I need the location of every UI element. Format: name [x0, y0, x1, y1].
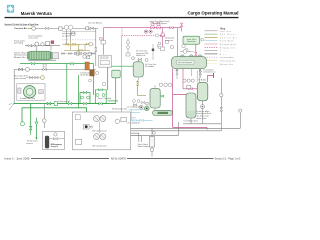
pipe green loop 1	[80, 93, 90, 104]
green discharge valves	[31, 62, 74, 64]
instrument cluster	[126, 41, 130, 56]
svg-text:Section 2.1 - Page 1 of 3: Section 2.1 - Page 1 of 3	[215, 158, 241, 161]
wire vessel leg drops	[177, 69, 201, 79]
cooler top fittings	[133, 100, 145, 104]
svg-text:tank filling: tank filling	[14, 42, 23, 45]
pipe nitrogen drop left	[102, 28, 104, 55]
wire drain drop	[43, 104, 45, 128]
pipe nitrogen dashed branch	[122, 28, 166, 36]
svg-text:Deck Water Seal: Deck Water Seal	[184, 120, 199, 123]
pipe nitrogen drop mid	[176, 28, 178, 57]
svg-text:LT Cooling W.: LT Cooling W.	[127, 122, 141, 124]
legend row electrical signal	[205, 56, 234, 59]
green control box	[112, 70, 120, 78]
cooler inlet valves	[133, 119, 144, 121]
cooler pumps	[133, 102, 148, 109]
legend row nitrogen	[205, 43, 237, 46]
wire instrument riser	[121, 36, 123, 112]
svg-text:Scrubber SW Pump: Scrubber SW Pump	[20, 97, 35, 100]
pipe green scrubber feed	[103, 65, 133, 67]
recirc valves row	[29, 76, 38, 78]
wire buffer tank drain	[202, 101, 204, 124]
legend row fresh water	[205, 40, 235, 43]
pipe green left riser bottom	[30, 104, 32, 127]
wire olive riser 1	[70, 40, 72, 50]
pipe nitrogen drop gen	[162, 28, 164, 47]
wire recirc row	[26, 77, 41, 79]
gauge trio under vessel	[159, 83, 172, 87]
main riser valve	[95, 48, 97, 52]
scrubber tower vessel	[133, 59, 143, 77]
svg-text:N2 Compressor: N2 Compressor	[93, 129, 108, 132]
svg-text:service air system: service air system	[28, 37, 38, 40]
svg-text:Inert Gas Blowers: Inert Gas Blowers	[88, 21, 102, 24]
deck water seal tower	[186, 93, 196, 118]
wire top suction main	[36, 27, 98, 29]
pipe nitrogen tower riser	[173, 69, 207, 130]
svg-text:Nm3/h unit: Nm3/h unit	[136, 54, 146, 57]
pipe nitrogen to deck	[208, 76, 214, 83]
green loop valves	[81, 89, 106, 105]
burner block orange	[85, 62, 89, 70]
tower side valve	[160, 95, 164, 97]
wire scrubber bottom stub	[138, 77, 155, 110]
label box gauges	[201, 39, 204, 42]
scrubber top fittings	[132, 57, 149, 62]
vessel drop valves	[176, 71, 202, 75]
svg-text:Scrubber: Scrubber	[145, 65, 155, 68]
svg-text:mast: mast	[27, 142, 34, 145]
pipe green vent run	[31, 118, 37, 138]
pipe green riser b	[93, 64, 95, 95]
wire control air line	[28, 27, 36, 29]
wire instrument dashed bus	[62, 39, 96, 41]
svg-text:Cargo Operating Manual: Cargo Operating Manual	[188, 11, 239, 16]
pipe nitrogen label box drop	[195, 44, 197, 56]
legend row exhaust	[205, 63, 233, 66]
svg-text:Maersk Ventura: Maersk Ventura	[21, 11, 53, 16]
wire gauge header	[25, 45, 60, 47]
svg-text:burner air: burner air	[165, 39, 173, 42]
wire deck seal feed	[151, 128, 153, 156]
generator gauges	[158, 40, 188, 51]
sea chest inlet	[9, 104, 14, 110]
sea water pump in box	[17, 84, 45, 100]
svg-text:Water Supply: Water Supply	[138, 145, 149, 148]
pipe green cross bottom	[108, 100, 118, 102]
wire blower discharge pair	[62, 30, 96, 32]
chamber gauges	[89, 71, 106, 85]
olive cluster fittings	[66, 43, 89, 51]
compressor room box	[72, 112, 130, 150]
svg-text:Inert Gas: Inert Gas	[220, 30, 231, 33]
svg-text:main suction: main suction	[14, 77, 26, 80]
svg-text:Illustration 2.14a Inert Gas S: Illustration 2.14a Inert Gas System in E…	[5, 23, 39, 26]
bus end gauge	[239, 109, 242, 112]
blower gauge	[71, 32, 75, 36]
wire center vertical main	[95, 28, 97, 66]
pressure box on nitrogen drop	[101, 41, 106, 45]
footer rule	[31, 158, 214, 160]
legend row lubricating oil	[205, 60, 236, 63]
legend row sea water	[205, 33, 237, 36]
blower unit no2	[86, 27, 94, 30]
wire tower drain	[125, 118, 191, 136]
svg-text:Oil: Oil	[220, 51, 229, 53]
wire pilot header	[180, 51, 194, 53]
svg-text:Control Air: Control Air	[220, 36, 237, 39]
blower suction box	[59, 27, 63, 30]
wire olive riser 3	[84, 44, 86, 50]
wire overboard header	[183, 123, 221, 125]
nitrogen dashed branch taps	[144, 30, 158, 37]
pipe green genset discharge	[20, 63, 94, 65]
wire olive scrubber drain	[138, 80, 146, 95]
pipe green vent arrowhead	[35, 138, 37, 140]
pipe to deck end flange	[213, 73, 215, 78]
wire blower downcomer A	[65, 30, 67, 44]
header rule	[5, 17, 239, 18]
svg-text:air system: air system	[62, 34, 72, 37]
pipe green loop 2	[95, 90, 106, 104]
burner trip valve	[152, 49, 154, 52]
svg-text:IMO No: 9334076: IMO No: 9334076	[111, 159, 127, 161]
nitrogen ig tap	[100, 38, 103, 40]
wire olive header 1	[62, 43, 94, 45]
drain gauge	[42, 119, 46, 123]
pipe green main bottom	[14, 103, 116, 105]
wire burner riser	[153, 44, 158, 60]
svg-text:N2 Generator Unit: N2 Generator Unit	[112, 107, 128, 110]
pilot gauge	[183, 50, 187, 54]
water tank vessel	[150, 88, 160, 108]
svg-text:Lubricating Oil: Lubricating Oil	[220, 60, 236, 63]
svg-text:N2 Compressor: N2 Compressor	[93, 144, 108, 147]
sea suction valve	[19, 64, 47, 71]
burner block brown	[90, 70, 94, 76]
scrubber drain valve	[137, 82, 139, 86]
recirc gauge	[41, 76, 45, 80]
nitrogen buffer tank	[197, 82, 208, 101]
pipe green left connector	[66, 64, 68, 104]
green bottom fittings	[21, 122, 39, 130]
svg-text:Nitrogen vent: Nitrogen vent	[220, 46, 235, 49]
pipe nitrogen main horizontal	[103, 27, 181, 29]
generator control box	[161, 47, 165, 51]
svg-text:LT Cooling W.: LT Cooling W.	[127, 107, 141, 109]
wire blower downcomer B	[70, 30, 72, 40]
emergency nitrogen box	[43, 131, 65, 149]
legend row inert gas	[205, 30, 231, 33]
svg-text:Sea Water: Sea Water	[220, 33, 236, 36]
wire burner rack	[61, 53, 96, 55]
burner gauge	[158, 46, 161, 49]
wire olive header 2	[64, 49, 90, 51]
green main valve	[47, 102, 57, 106]
legend row oil	[205, 51, 229, 53]
svg-text:drain valve: drain valve	[197, 117, 207, 120]
svg-text:Supply: Supply	[51, 146, 58, 148]
nitrogen buffer valve	[189, 88, 193, 90]
pipe nitrogen drop right short	[181, 28, 183, 32]
generator blower unit no1	[28, 51, 59, 61]
legend row hot water	[205, 36, 238, 39]
svg-text:Issue 1 - June 2008: Issue 1 - June 2008	[5, 159, 31, 161]
buffer outlet gauge	[201, 105, 205, 109]
svg-text:Fresh Water: Fresh Water	[220, 40, 234, 43]
control panel box	[99, 55, 112, 67]
legend row air	[205, 53, 227, 56]
blower pair no1	[64, 25, 73, 29]
Maersk logo	[7, 5, 14, 13]
svg-text:Chamber: Chamber	[80, 74, 90, 77]
svg-text:Exhaust Gas: Exhaust Gas	[220, 63, 233, 66]
svg-text:Blower No 1: Blower No 1	[14, 56, 28, 59]
svg-text:From LT cooling: From LT cooling	[98, 97, 111, 100]
wire bus second	[131, 78, 222, 131]
nitrogen deck isolating valves	[151, 23, 183, 29]
lube oil stub	[66, 45, 80, 47]
legend row nitrogen vapour	[205, 46, 236, 49]
wire olive riser 2	[77, 44, 79, 56]
wire bus long top	[131, 113, 241, 129]
overboard valve	[220, 94, 223, 112]
inert gas generator vessel	[172, 55, 207, 71]
green main extra valve	[68, 102, 72, 104]
wire bus third	[131, 133, 142, 142]
pipe green second bottom	[22, 108, 87, 122]
nitrogen branch valve	[161, 35, 165, 37]
wire gauge drop	[36, 46, 38, 51]
valve control air	[32, 27, 36, 31]
pipe green riser a	[78, 75, 80, 108]
wire valve drop	[50, 46, 52, 51]
wire vessel to tank drop	[197, 69, 199, 83]
cooler horizontal cylinder	[153, 110, 173, 115]
suction line valve	[45, 27, 49, 29]
pipe green riser c	[107, 66, 109, 90]
svg-text:(see illustration 2.1.1): (see illustration 2.1.1)	[203, 71, 215, 74]
gauge trio right	[183, 79, 195, 89]
wire instrument stub	[127, 38, 129, 53]
olive cluster gauges	[76, 42, 93, 58]
wire sea suction line	[14, 68, 96, 70]
svg-text:Instrumentation: Instrumentation	[220, 56, 234, 59]
deck seal pot	[150, 131, 156, 151]
svg-text:Nitrogen (gas): Nitrogen (gas)	[220, 43, 236, 46]
svg-text:Control Air: Control Air	[14, 27, 28, 30]
pipe nitrogen buffer feed	[183, 69, 197, 89]
svg-text:IG Buffer: IG Buffer	[198, 79, 207, 82]
label box drop valve	[195, 52, 197, 56]
wire sea suction drop	[13, 69, 15, 104]
pipe green riser d	[115, 70, 117, 104]
inert gas system label box	[183, 36, 200, 44]
burner rack fittings	[62, 52, 95, 59]
gauge cluster left	[28, 42, 44, 47]
pressure control unit	[46, 41, 54, 45]
svg-text:Isolating Valves: Isolating Valves	[152, 22, 167, 25]
svg-text:Inert Gas Generator: Inert Gas Generator	[178, 61, 192, 64]
svg-text:To deck seal unit: To deck seal unit	[58, 100, 70, 103]
wire fresh water net	[129, 110, 153, 121]
cooling pump	[144, 106, 149, 111]
svg-text:Air: Air	[220, 53, 226, 56]
generator pilot box	[161, 33, 164, 36]
